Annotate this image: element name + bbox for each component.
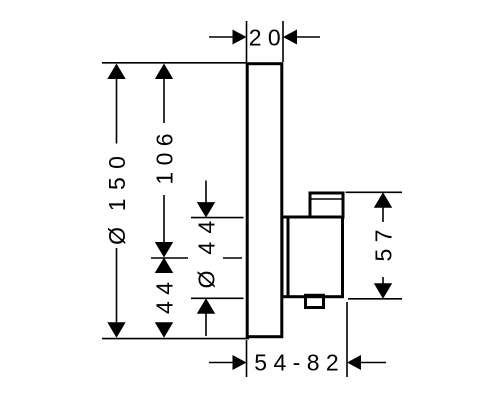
svg-text:Ø 4 4: Ø 4 4 xyxy=(193,220,219,289)
svg-text:Ø 1 5 0: Ø 1 5 0 xyxy=(104,155,130,245)
svg-text:5 4 - 8 2: 5 4 - 8 2 xyxy=(254,350,338,376)
svg-text:4 4: 4 4 xyxy=(151,282,177,314)
svg-text:2 0: 2 0 xyxy=(249,25,281,51)
svg-text:1 0 6: 1 0 6 xyxy=(151,133,177,184)
svg-text:5 7: 5 7 xyxy=(370,230,396,262)
